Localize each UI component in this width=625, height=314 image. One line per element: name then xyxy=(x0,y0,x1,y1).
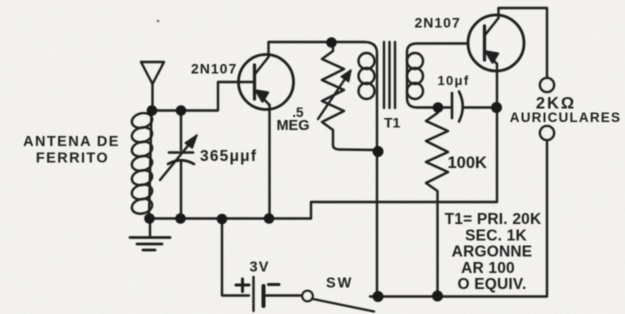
node primary bottom xyxy=(373,146,384,157)
wire Q2 collector to headphone top terminal xyxy=(499,8,548,78)
switch SW xyxy=(302,291,374,312)
transformer T1 primary xyxy=(359,42,378,297)
wire Q1 emitter down to bottom rail xyxy=(268,105,270,219)
wire Q2 emitter down, left along mid rail, to bottom rail xyxy=(311,64,497,219)
potentiometer .5 MEG xyxy=(318,44,377,150)
note T1 spec xyxy=(445,211,542,293)
node 100K top xyxy=(433,102,444,113)
variable capacitor 365uuf xyxy=(160,111,197,219)
headphone terminal bottom xyxy=(540,126,554,140)
wire Q1 collector to transformer primary top xyxy=(269,42,365,57)
node varcap bottom xyxy=(175,213,186,224)
wire top-left to Q1 base xyxy=(152,82,238,111)
node coil bottom xyxy=(144,213,155,224)
antenna xyxy=(141,62,164,111)
resistor 100K xyxy=(426,108,448,296)
bottom rail left xyxy=(149,217,311,219)
node .5MEG top xyxy=(326,37,337,48)
node switch rail B xyxy=(432,291,443,302)
node Q2 emitter / 10uf xyxy=(491,102,502,113)
label .5 MEG xyxy=(276,105,309,134)
node varcap top xyxy=(176,105,187,116)
headphone terminal top xyxy=(540,78,554,92)
node antenna/coil top xyxy=(147,105,158,116)
node battery tap xyxy=(217,214,228,225)
ferrite coil L1 xyxy=(130,111,153,217)
bottom right rail xyxy=(370,295,546,297)
ground xyxy=(130,218,170,250)
node Q1 emitter xyxy=(264,213,275,224)
transistor Q2 2N107 xyxy=(468,15,524,71)
transformer T1 core xyxy=(384,42,395,108)
node switch rail A xyxy=(373,291,384,302)
wire headphone bottom terminal down xyxy=(546,140,548,297)
battery 3V xyxy=(222,220,302,311)
transformer T1 secondary xyxy=(407,44,468,108)
capacitor 10uf xyxy=(452,92,497,122)
transistor Q1 2N107 xyxy=(238,55,294,110)
label ANTENA DE FERRITO xyxy=(23,134,120,167)
label 2K ohm AURICULARES xyxy=(510,95,621,126)
